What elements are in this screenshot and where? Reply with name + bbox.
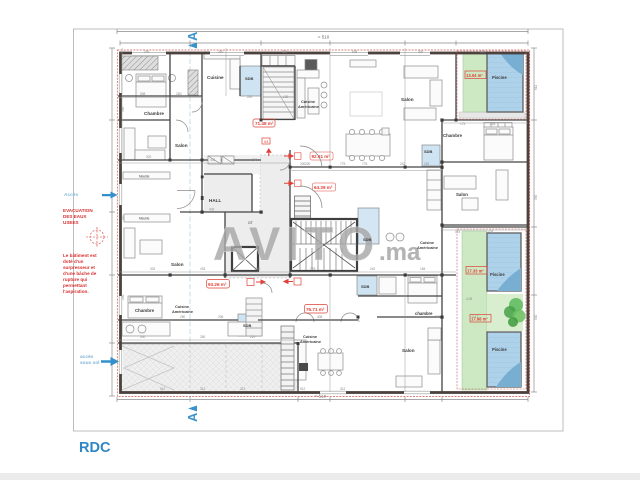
svg-text:SDB: SDB (245, 76, 254, 81)
svg-text:64.39 m²: 64.39 m² (314, 185, 333, 190)
svg-text:AVITO: AVITO (213, 217, 380, 270)
pool 1 corner shade (500, 53, 523, 75)
garage bay dashed dividers (190, 345, 262, 391)
svg-text:Chambre: Chambre (135, 308, 155, 313)
rug salon 2 (350, 92, 382, 116)
svg-text:76.71 m²: 76.71 m² (306, 307, 325, 312)
svg-text:260: 260 (255, 267, 261, 271)
kitchen counter mid-right (427, 170, 441, 210)
svg-text:71.48 m²: 71.48 m² (255, 121, 274, 126)
exterior wall (121, 53, 529, 393)
entry landing floor (204, 155, 260, 174)
svg-text:302: 302 (146, 155, 152, 159)
svg-text:SDB: SDB (243, 323, 252, 328)
SDB 5 core bathroom (358, 208, 379, 244)
svg-text:Chambre: Chambre (443, 133, 463, 138)
svg-text:300: 300 (418, 50, 424, 54)
duct hatched strip (188, 70, 198, 95)
blue labels (64, 31, 200, 456)
red annotations (207, 71, 492, 322)
left red notes (63, 208, 108, 294)
terrace 1 green lawn (463, 53, 487, 112)
hall floor (204, 174, 252, 212)
svg-text:HALL: HALL (209, 198, 221, 203)
svg-text:250: 250 (180, 315, 186, 319)
svg-text:Américaine: Américaine (417, 245, 439, 250)
elevator (232, 247, 258, 271)
room labels (135, 75, 507, 353)
small stair hall to corridor (295, 196, 311, 218)
svg-text:302: 302 (150, 267, 156, 271)
svg-text:Américaine: Américaine (300, 339, 322, 344)
bed 3 chambre bottom-left (128, 296, 162, 318)
SDB 3 bottom-left bathroom (238, 314, 258, 336)
kitchen 1 counters (204, 52, 240, 59)
svg-text:175: 175 (460, 122, 466, 126)
svg-text:165: 165 (420, 267, 426, 271)
svg-text:200: 200 (252, 158, 258, 162)
kitchen arcs bottom-left (296, 313, 314, 322)
svg-text:290: 290 (121, 294, 125, 300)
red box 04 (262, 138, 270, 144)
svg-text:300: 300 (282, 50, 288, 54)
svg-text:428: 428 (488, 230, 494, 234)
garage hatched floor (120, 344, 298, 392)
interior walls (118, 54, 528, 392)
interior dimension chains (118, 48, 528, 392)
bed 2 chambre mid-right (484, 127, 513, 160)
svg-text:.ma: .ma (379, 239, 421, 266)
tub bottom-right (379, 277, 396, 294)
svg-text:433: 433 (210, 158, 216, 162)
terrace red dashed 2 (457, 229, 526, 389)
svg-text:≈ 510: ≈ 510 (318, 35, 330, 40)
svg-text:04: 04 (264, 139, 269, 144)
svg-text:260: 260 (200, 335, 206, 339)
red box + arrow + area 64.39 (284, 181, 293, 185)
bed 4 chambre bottom-right (408, 276, 437, 303)
pool 2 right-middle (487, 233, 521, 291)
bottom grey strip (0, 473, 640, 480)
svg-text:242: 242 (400, 162, 406, 166)
svg-text:EVACUATION: EVACUATION (63, 208, 93, 213)
svg-text:611: 611 (534, 85, 538, 90)
meuble strip bottom-left salon (124, 214, 170, 222)
basement ramp stair (281, 326, 294, 390)
left dimension line (109, 48, 115, 396)
svg-text:208: 208 (218, 315, 224, 319)
rug table salon top-left (148, 136, 166, 148)
pool 1 top-right (487, 53, 523, 112)
window bottom wall salon4a (320, 390, 346, 395)
kitchen 2 counter top-right (297, 70, 319, 78)
svg-text:408: 408 (317, 315, 323, 319)
kitchen 4 counters (292, 340, 306, 380)
red arrow down entry 2 (267, 149, 271, 156)
svg-text:SDB: SDB (363, 237, 372, 242)
property line red dashed (117, 50, 529, 397)
svg-text:312: 312 (340, 387, 346, 391)
kitchen 3 counters (122, 322, 170, 336)
svg-text:775: 775 (362, 162, 368, 166)
svg-text:chambre: chambre (415, 311, 433, 316)
svg-text:A: A (185, 412, 200, 422)
SDB 4 bottom-right bathroom (357, 276, 377, 295)
svg-text:DES EAUX: DES EAUX (63, 214, 87, 219)
right dimension line (531, 48, 537, 392)
svg-text:260: 260 (218, 50, 224, 54)
tv cabinet top-right (350, 60, 376, 67)
svg-text:Meuble: Meuble (139, 175, 150, 179)
svg-text:175: 175 (455, 230, 461, 234)
table bottom-right (355, 159, 357, 161)
dining table top-right (346, 134, 390, 156)
windows top wall (132, 51, 430, 56)
window left wall salon1 (118, 128, 123, 153)
stove appliance (299, 363, 308, 371)
pool 3 corner shade (496, 362, 521, 387)
red arrow + box + area 92.61 (284, 154, 293, 158)
top dimension line (117, 29, 528, 46)
terrace 2 green lawn (462, 231, 487, 390)
svg-text:508: 508 (140, 92, 146, 96)
green strip mid (487, 294, 523, 331)
svg-text:Salon: Salon (171, 262, 184, 267)
red garden area 3 (470, 315, 491, 323)
sofa L salon top-left (124, 128, 135, 160)
section A bottom (185, 412, 200, 422)
terrace red dashed 1 (457, 51, 526, 119)
red area 76.71 (305, 305, 328, 314)
svg-text:93.26 m²: 93.26 m² (208, 282, 227, 287)
svg-text:390: 390 (534, 194, 538, 200)
sofa bottom-left salon (124, 228, 135, 258)
salon mid-right sofa (444, 176, 476, 189)
svg-text:SDB: SDB (361, 284, 370, 289)
svg-text:sous sol: sous sol (80, 360, 99, 366)
pool 3 bottom-right (487, 332, 521, 387)
pool 2 corner shade (497, 268, 521, 291)
door arcs (176, 102, 322, 293)
hall meuble cabinets (208, 92, 389, 164)
table mid-right (462, 198, 478, 210)
structural columns (169, 119, 458, 346)
svg-text:USEES: USEES (63, 220, 79, 225)
section line A-A (189, 44, 191, 404)
pump symbol (86, 227, 108, 247)
svg-text:Salon: Salon (456, 192, 468, 197)
svg-text:GT: GT (248, 221, 254, 225)
svg-text:312: 312 (200, 387, 206, 391)
svg-text:346: 346 (144, 50, 150, 54)
furniture layer (121, 52, 513, 387)
svg-text:Meuble: Meuble (139, 217, 150, 221)
closet above stair (262, 56, 295, 66)
red box arrow pair bottom (284, 280, 293, 284)
svg-text:permettant: permettant (63, 283, 87, 288)
red area label 71.48 (253, 119, 275, 127)
closet chambre mid-right (484, 123, 512, 128)
SDB 2 mid-right bathroom (422, 145, 440, 166)
svg-text:200: 200 (305, 162, 311, 166)
svg-text:300: 300 (140, 335, 146, 339)
svg-text:doté d'un: doté d'un (63, 259, 84, 264)
svg-text:775: 775 (310, 267, 316, 271)
svg-text:26D: 26D (176, 92, 183, 96)
bar stools top-right (321, 82, 327, 88)
svg-text:accès: accès (80, 354, 94, 360)
garage door swing X (122, 346, 174, 390)
bed 1 chambre top-left (136, 74, 166, 107)
svg-text:242: 242 (424, 162, 430, 166)
svg-text:433: 433 (200, 267, 206, 271)
small stair bottom-mid (246, 298, 262, 336)
svg-text:17.33 m²: 17.33 m² (467, 269, 484, 274)
svg-text:surpresseur et: surpresseur et (63, 265, 95, 270)
fridge kitchen 2 (305, 60, 317, 71)
svg-text:92.61 m²: 92.61 m² (312, 154, 331, 159)
red area 93.26 + box arrow (207, 280, 230, 289)
svg-text:540: 540 (534, 314, 538, 320)
window left wall chambre3 (118, 296, 123, 315)
bottom dimension line (117, 397, 528, 402)
sofa top-right salon (404, 66, 438, 78)
sofa bottom-right salon (396, 376, 422, 387)
svg-text:Salon: Salon (175, 143, 188, 148)
svg-text:210: 210 (250, 335, 256, 339)
svg-text:rupture qui: rupture qui (63, 277, 87, 282)
svg-text:RDC: RDC (79, 440, 111, 456)
svg-text:512: 512 (160, 387, 166, 391)
svg-text:SDB: SDB (424, 149, 433, 154)
window left wall chambre1 (118, 74, 123, 93)
acces sous sol arrow (101, 357, 119, 366)
svg-text:Cuisine: Cuisine (207, 75, 224, 80)
svg-text:Salon: Salon (402, 348, 415, 353)
window bottom wall salon4b (404, 390, 430, 395)
duplex stair top (263, 67, 294, 119)
svg-text:428: 428 (490, 122, 496, 126)
drawing frame border (74, 29, 564, 431)
svg-text:Américaine: Américaine (172, 309, 194, 314)
tree (504, 298, 526, 327)
svg-text:l'aspiration.: l'aspiration. (63, 289, 89, 294)
main stair core (291, 219, 357, 271)
svg-text:Salon: Salon (401, 97, 414, 102)
svg-text:608: 608 (352, 50, 358, 54)
svg-text:139: 139 (283, 95, 289, 99)
dining table bottom-right (318, 353, 343, 370)
svg-text:Piscine: Piscine (492, 347, 507, 352)
section A top (185, 31, 200, 41)
fridge kitchen 1 (231, 60, 240, 71)
svg-text:17.98 m²: 17.98 m² (471, 317, 488, 322)
svg-text:200: 200 (247, 95, 253, 99)
red pool area 2 (466, 267, 487, 275)
svg-text:410: 410 (121, 214, 125, 220)
svg-text:A: A (185, 31, 200, 41)
svg-text:d'une bâche de: d'une bâche de (63, 271, 97, 276)
wardrobe top-left closet (121, 56, 158, 70)
red pool area 1 (465, 71, 486, 79)
entry opening left wall (118, 184, 123, 205)
svg-text:512: 512 (300, 387, 306, 391)
svg-text:Piscine: Piscine (492, 75, 507, 80)
svg-text:4.28: 4.28 (466, 297, 472, 301)
watermark AVITO.ma (213, 217, 421, 270)
svg-text:312: 312 (240, 387, 246, 391)
meuble strip under salon (123, 172, 170, 179)
acces arrow (102, 192, 118, 199)
nightstand circles (126, 75, 133, 82)
svg-text:346: 346 (121, 106, 125, 112)
corridor floor (225, 155, 290, 278)
svg-text:242: 242 (370, 267, 376, 271)
svg-text:346: 346 (480, 50, 486, 54)
svg-text:242: 242 (435, 315, 441, 319)
tiny dimension numbers (121, 50, 538, 391)
sous-sol opening left wall (118, 350, 123, 374)
round chairs mid-right (386, 233, 394, 241)
svg-text:Chambre: Chambre (144, 111, 164, 116)
svg-text:13.04 m²: 13.04 m² (466, 73, 483, 78)
svg-text:Le bâtiment est: Le bâtiment est (63, 253, 97, 258)
svg-text:433: 433 (209, 208, 215, 212)
svg-text:Piscine: Piscine (490, 272, 505, 277)
svg-text:Accès: Accès (64, 192, 78, 198)
terrace 1 walkway (459, 112, 525, 118)
SDB 1 top-left bathroom (240, 66, 261, 96)
svg-text:775: 775 (340, 162, 346, 166)
svg-text:Américaine: Américaine (298, 104, 320, 109)
